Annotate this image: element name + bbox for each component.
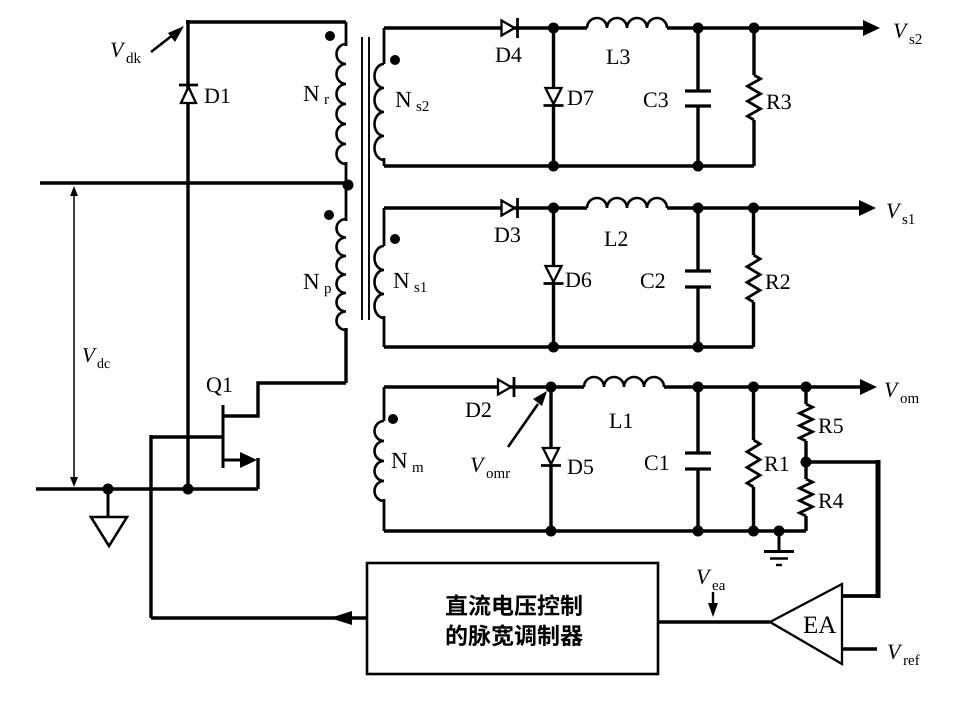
ground symbol bbox=[107, 489, 110, 516]
node R1 bottom bbox=[748, 526, 759, 537]
wire EA reference input bbox=[842, 647, 877, 651]
node C2 top bbox=[693, 203, 704, 214]
wire gate feedback vertical bbox=[149, 435, 152, 618]
wire Nr bottom to tap bbox=[345, 162, 348, 185]
node R5 R4 junction bbox=[801, 457, 812, 468]
wire stage2 bottom rail bbox=[384, 345, 754, 349]
polarity dot Nm bbox=[388, 414, 398, 424]
diode D6 bbox=[552, 208, 555, 265]
wire ground rail bbox=[36, 487, 258, 490]
Vdk pointer arrow bbox=[151, 34, 174, 52]
diode D3 bbox=[502, 201, 515, 216]
label D7 bbox=[568, 91, 594, 105]
polarity dot Ns2 bbox=[390, 55, 400, 65]
node C2 bottom bbox=[693, 342, 704, 353]
node R2 top bbox=[748, 203, 759, 214]
winding Ns2 bbox=[383, 28, 386, 64]
diode D5 bbox=[549, 387, 552, 447]
PWM box text line1 bbox=[446, 594, 582, 616]
resistor R5 bbox=[804, 387, 807, 404]
polarity dot Np bbox=[324, 210, 334, 220]
polarity dot Nr bbox=[325, 31, 335, 41]
label D6 bbox=[566, 272, 592, 287]
diode D7 bbox=[552, 28, 555, 87]
label Nr bbox=[304, 86, 319, 101]
label C2 bbox=[641, 273, 665, 288]
resistor R1 bbox=[752, 387, 755, 440]
node ground tap bbox=[774, 526, 785, 537]
diode D2 bbox=[498, 380, 511, 395]
output arrow Vs2 bbox=[754, 26, 865, 30]
winding Nr bbox=[337, 44, 347, 164]
earth ground symbol bbox=[778, 531, 781, 550]
PWM output arrowhead bbox=[330, 611, 352, 625]
node D6 bottom bbox=[548, 342, 559, 353]
op-amp EA bbox=[770, 584, 842, 664]
node D5 bottom bbox=[546, 526, 557, 537]
wire D1 branch vertical bbox=[186, 20, 189, 489]
node R3 top bbox=[749, 23, 760, 34]
node ground junction bbox=[103, 484, 114, 495]
label EA bbox=[804, 617, 836, 634]
wire stage2 top rail bbox=[384, 206, 587, 210]
node D6 top bbox=[548, 203, 559, 214]
winding Np bbox=[337, 219, 347, 330]
label R4 bbox=[819, 494, 844, 509]
inductor L2 bbox=[587, 198, 667, 208]
node R1 top bbox=[748, 382, 759, 393]
label D1 bbox=[205, 89, 230, 104]
wire mid rail bbox=[40, 181, 348, 185]
transistor Q1 bbox=[222, 405, 225, 468]
label R3 bbox=[767, 94, 791, 109]
label D2 bbox=[466, 402, 491, 417]
diode D1 bbox=[181, 87, 196, 103]
resistor R4 bbox=[804, 462, 807, 479]
wire gate lead bbox=[151, 435, 223, 438]
wire stage3 top rail bbox=[384, 385, 584, 389]
winding Nm bbox=[383, 387, 386, 421]
node D1 ground junction bbox=[183, 484, 194, 495]
PWM controller box bbox=[367, 563, 658, 674]
label Vs2 bbox=[894, 24, 909, 39]
label D5 bbox=[568, 460, 593, 475]
node C3 bottom bbox=[693, 161, 704, 172]
node D7 bottom bbox=[548, 161, 559, 172]
capacitor C2 bbox=[696, 208, 699, 271]
wire PWM output bbox=[151, 616, 367, 619]
label Ns1 bbox=[394, 273, 409, 288]
polarity dot Ns1 bbox=[390, 234, 400, 244]
node C1 top bbox=[693, 382, 704, 393]
wire feedback sense bbox=[806, 460, 878, 463]
output arrow Vom bbox=[806, 385, 862, 389]
inductor L1 bbox=[584, 377, 664, 387]
PWM box text line2 bbox=[447, 624, 583, 646]
Vdc dimension arrow bbox=[73, 190, 75, 484]
label R1 bbox=[765, 457, 789, 472]
label L2 bbox=[605, 231, 628, 246]
label Vea bbox=[697, 570, 712, 585]
label Vdk bbox=[111, 43, 126, 58]
wire stage1 bottom rail bbox=[384, 164, 754, 168]
capacitor C1 bbox=[696, 387, 699, 453]
winding Ns1 bbox=[383, 208, 386, 246]
label L1 bbox=[610, 414, 633, 429]
label D3 bbox=[495, 227, 520, 242]
label Ns2 bbox=[396, 92, 411, 107]
label D4 bbox=[496, 48, 522, 63]
wire feedback vertical bbox=[876, 460, 881, 598]
wire stage3 bottom rail bbox=[384, 529, 806, 533]
node C1 bottom bbox=[693, 526, 704, 537]
node R5 top bbox=[801, 382, 812, 393]
label C3 bbox=[644, 92, 668, 107]
transformer core bbox=[361, 37, 363, 320]
label Q1 bbox=[207, 377, 232, 395]
node C3 top bbox=[693, 23, 704, 34]
wire EA output bbox=[658, 620, 770, 624]
label R5 bbox=[819, 419, 843, 434]
label R2 bbox=[766, 274, 790, 289]
inductor L3 bbox=[587, 18, 667, 28]
node D7 top bbox=[548, 23, 559, 34]
label Vref bbox=[888, 645, 903, 660]
capacitor C3 bbox=[696, 28, 699, 91]
diode D4 bbox=[502, 21, 515, 36]
Vea pointer arrow bbox=[712, 592, 714, 604]
label Nm bbox=[392, 453, 407, 468]
label Vs1 bbox=[887, 204, 902, 219]
wire EA noninverting input bbox=[842, 594, 880, 598]
output arrow Vs1 bbox=[754, 206, 862, 210]
node D5 top bbox=[546, 382, 557, 393]
Vomr pointer arrow bbox=[508, 404, 538, 447]
node primary center tap bbox=[343, 180, 354, 191]
wire top rail primary bbox=[186, 20, 346, 24]
label Vdc bbox=[83, 348, 97, 362]
label L3 bbox=[607, 49, 630, 64]
wire drain connection bbox=[222, 383, 346, 416]
label C1 bbox=[645, 455, 669, 470]
wire stage1 top rail bbox=[384, 26, 587, 30]
label Np bbox=[304, 274, 319, 289]
label Vomr bbox=[471, 458, 486, 473]
resistor R3 bbox=[752, 28, 755, 75]
resistor R2 bbox=[752, 208, 755, 255]
label Vom bbox=[885, 383, 900, 398]
